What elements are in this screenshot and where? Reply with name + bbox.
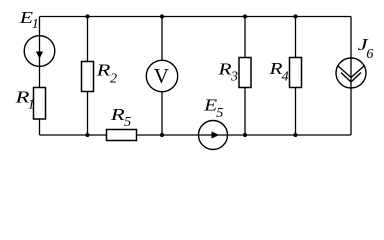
wire right branch [350,17,352,136]
resistor R4 [290,58,302,88]
svg-text:2: 2 [110,72,117,87]
svg-text:R: R [217,59,232,78]
current source J6 [336,58,366,88]
junction node top V [160,14,164,18]
junction node bottom V [160,133,164,137]
svg-text:1: 1 [32,17,39,32]
resistor R1 [34,88,46,120]
label R5 [109,105,131,130]
svg-text:3: 3 [230,70,238,85]
wire bottom rail left [40,134,107,136]
label E1 [19,8,39,32]
label R2 [95,61,117,87]
label J6 [358,35,374,62]
wire R2 branch lower [87,92,89,136]
svg-text:V: V [154,64,169,88]
svg-text:6: 6 [366,47,373,62]
label R4 [268,59,288,85]
resistor R3 [239,58,251,88]
label R3 [217,59,238,84]
wire voltmeter branch lower [161,92,163,135]
svg-text:R: R [95,61,111,80]
wire top rail [40,16,352,18]
junction node top R4 [293,14,297,18]
voltmeter U [146,60,177,91]
svg-text:5: 5 [124,115,131,130]
resistor R5 [107,130,137,141]
svg-text:5: 5 [216,106,223,121]
junction node bottom R4 [293,133,297,137]
wire R3 branch lower [244,88,246,136]
junction node bottom R2 [85,133,89,137]
junction node top R2 [85,14,89,18]
wire R4 branch lower [295,88,297,136]
voltage source E1 [24,36,55,67]
voltage source E5 [199,121,228,150]
junction node top R3 [243,14,247,18]
label E5 [203,96,223,121]
svg-text:4: 4 [282,70,289,85]
resistor R2 [82,62,94,92]
label R1 [14,87,35,112]
wire left branch upper [39,17,41,89]
wire bottom rail middle [137,134,199,136]
wire left branch lower [39,119,41,136]
svg-text:1: 1 [28,97,35,112]
wire R3 branch upper [244,17,246,58]
junction node bottom R3 [243,133,247,137]
wire R2 branch upper [87,17,89,62]
wire R4 branch upper [295,17,297,58]
wire bottom rail right [228,134,352,136]
wire voltmeter branch upper [161,17,163,61]
